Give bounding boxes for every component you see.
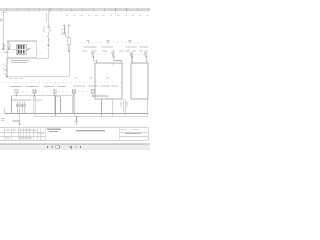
toolbar icon c [71, 146, 73, 149]
company logo text [47, 129, 61, 133]
interruption arrow down [47, 45, 49, 48]
left drop wire [11, 96, 13, 114]
dashed boundary upper right [80, 41, 148, 43]
breaker F1 chain [47, 11, 50, 45]
valve Y4 branch [144, 53, 148, 61]
text row upper right 1b [126, 46, 149, 47]
node junction on bus [3, 11, 4, 12]
wire labels under left wire [9, 77, 24, 80]
contact terminal dots [3, 43, 4, 44]
wire label text [4, 12, 7, 13]
text row upper right 1 [84, 46, 114, 47]
title block cell texts [6, 130, 44, 139]
wire pair under S4 [73, 96, 74, 117]
limit switch S4 [73, 90, 76, 96]
limit switch S3 [53, 90, 56, 96]
junction node [93, 56, 95, 58]
vertical device tag text [46, 14, 47, 22]
wire pole 2 inside box [8, 41, 10, 48]
wire labels vertical [121, 102, 122, 107]
top ruler line upper [0, 8, 150, 10]
wire to sub box [93, 95, 108, 97]
wire to connector [10, 49, 17, 51]
connector block X10 outline [17, 44, 26, 54]
title block column dividers [5, 128, 119, 141]
mechanical linkage dashed [18, 91, 91, 93]
main lower wire bus [4, 113, 147, 115]
valve Y2 branch [112, 53, 122, 63]
device label text line2 [11, 62, 28, 63]
project description text [76, 130, 106, 131]
device box A3 [131, 63, 148, 99]
second lower wire bus [34, 115, 148, 117]
text row middle [10, 86, 118, 88]
label text [44, 25, 45, 31]
boundary crossing ticks [88, 41, 130, 44]
wire number marks above dash [75, 77, 110, 78]
wire horizontal to riser [7, 76, 69, 78]
valve Y1 branch [91, 53, 96, 63]
label text right of connector [29, 48, 31, 49]
wire pair under S2 [34, 96, 35, 117]
riser wire up [68, 45, 70, 77]
contact K1 chain [63, 25, 66, 38]
wire pair under S3 [54, 96, 55, 117]
valve Y3 branch [130, 53, 133, 63]
junction node [68, 50, 70, 52]
linkage dashes right pairs [96, 53, 144, 55]
page info cell texts [122, 129, 141, 134]
ground branch arrow [12, 114, 19, 124]
toolbar page box [56, 146, 60, 148]
dashed boundary middle [1, 82, 122, 84]
interruption label left edge [0, 19, 2, 22]
toolbar icon b [51, 146, 53, 148]
page bottom edge [0, 143, 150, 145]
ground symbol [75, 116, 79, 124]
left drop wire 2 [3, 108, 5, 114]
toolbar icon a [46, 146, 48, 148]
tag text 2 [61, 33, 64, 36]
sub device box [102, 99, 113, 116]
title block grid [0, 128, 148, 141]
connector pins dark grid [18, 45, 25, 53]
toolbar icon e [80, 146, 82, 148]
branch into box [113, 63, 115, 66]
toolbar strip [0, 144, 150, 150]
cable label text [1, 118, 5, 119]
text above terminals [12, 100, 31, 101]
wire L1 drop left [2, 11, 4, 48]
enclosure box U1 [7, 41, 36, 58]
toolbar icon d [75, 146, 77, 148]
wire bus lower left [12, 95, 75, 97]
device box A2 [95, 63, 122, 99]
limit switch S1 [15, 90, 18, 96]
wire designation row [66, 15, 149, 16]
limit switch S5 [91, 90, 94, 96]
fuse F2 chain [67, 25, 70, 52]
ruler column dividers [6, 8, 148, 11]
wire PE vertical with taps [5, 58, 7, 77]
switch contact Q1 pole1 [2, 45, 10, 52]
tap labels [3, 63, 5, 66]
device label text line1 [11, 60, 30, 61]
top ruler line lower [0, 10, 150, 12]
wire branch corner [56, 97, 61, 114]
wire from arrow down to box [37, 49, 49, 59]
wire right of connector [26, 48, 28, 50]
wire pair right of box [124, 99, 148, 116]
text row upper right 2 [82, 50, 148, 51]
limit switch S2 [33, 90, 36, 96]
tag text near chains [61, 28, 64, 31]
terminal X2 circles [16, 101, 26, 113]
tick labels above dash [86, 39, 131, 42]
junction node [6, 76, 8, 78]
tick under arrow [47, 47, 50, 50]
